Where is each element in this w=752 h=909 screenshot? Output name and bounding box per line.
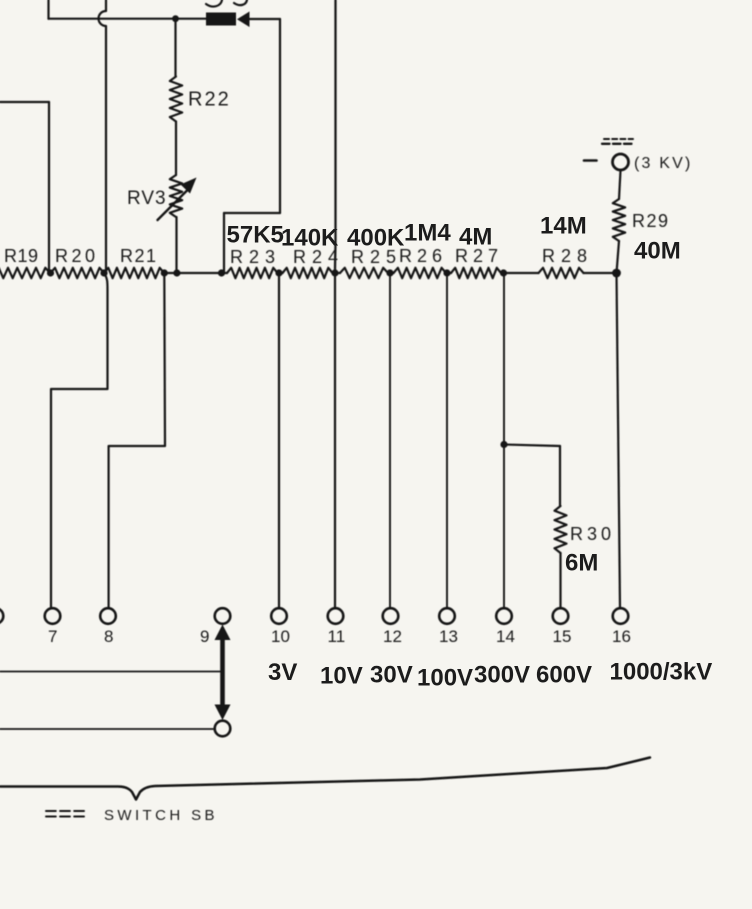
svg-text:14M: 14M	[540, 213, 587, 240]
svg-text:SWITCH SB: SWITCH SB	[104, 807, 218, 824]
resistor R23	[227, 268, 278, 278]
wire j9 to R27	[446, 272, 451, 274]
node chain j9	[443, 269, 450, 276]
wire top-left vertical stub	[47, 0, 49, 19]
minus sign	[584, 159, 597, 162]
wire left horizontal	[0, 101, 49, 103]
wire left vertical to chain	[48, 102, 50, 273]
terminal below switch arrow	[215, 721, 231, 737]
terminal 6 (cut) circle	[0, 608, 3, 624]
svg-text:7: 7	[48, 627, 57, 646]
wire R28 to j11	[584, 272, 617, 274]
node chain j4 RV3 tap	[173, 269, 180, 276]
terminal (3KV) circle	[613, 154, 629, 170]
wire down to terminal 14	[503, 273, 505, 608]
chassis dashes above 3KV terminal	[604, 138, 633, 140]
resistor R29	[613, 199, 625, 241]
wire step down to terminal 8	[109, 273, 165, 608]
terminal 10 circle	[271, 608, 287, 624]
node chain j5	[218, 269, 225, 276]
legend dashes	[46, 810, 84, 812]
node chain j1	[47, 269, 54, 276]
wire R30 branch horizontal	[504, 445, 560, 447]
svg-text:R29: R29	[632, 211, 670, 231]
switch wiper double arrow	[215, 625, 231, 641]
resistor R24	[283, 268, 333, 278]
svg-text:R22: R22	[188, 89, 231, 111]
wire j6 to R24	[278, 272, 283, 274]
svg-text:3V: 3V	[268, 659, 297, 686]
resistor R30	[555, 506, 567, 553]
diode body black rectangle	[206, 13, 236, 26]
wire bus to R22	[174, 19, 176, 77]
node chain j3	[161, 269, 168, 276]
wire j7 to R25	[333, 272, 341, 274]
svg-text:(3 KV): (3 KV)	[634, 155, 693, 172]
wire down to terminal 13	[446, 273, 448, 608]
resistor R26	[394, 268, 447, 278]
variable resistor RV3	[170, 175, 182, 217]
node junction of R22 branch on bus	[172, 15, 179, 22]
node chain j11 (R29 tap)	[612, 269, 621, 278]
wire 3KV terminal to R29	[619, 171, 621, 200]
wire down to terminal 11	[334, 0, 337, 273]
node chain j2	[100, 269, 107, 276]
svg-text:RV3: RV3	[127, 188, 167, 209]
wire common row B	[0, 728, 215, 730]
node chain j8	[386, 269, 393, 276]
svg-text:10V: 10V	[320, 663, 363, 690]
svg-text:400K: 400K	[347, 225, 405, 252]
wire step vertical down to chain	[223, 213, 225, 273]
wire R30 to terminal 15	[559, 553, 561, 608]
resistor R28	[539, 268, 584, 278]
wire step horizontal	[224, 212, 280, 214]
wire chain j3 to j4	[164, 272, 221, 274]
svg-text:R28: R28	[542, 246, 593, 266]
svg-text:300V: 300V	[474, 662, 530, 689]
svg-text:15: 15	[553, 627, 572, 646]
svg-text:8: 8	[104, 627, 113, 646]
terminal 11 circle	[328, 608, 344, 624]
terminal 14 circle	[496, 608, 512, 624]
svg-text:140K: 140K	[281, 225, 339, 252]
svg-text:R30: R30	[570, 524, 615, 544]
wire down to terminal 12	[389, 273, 391, 608]
svg-text:4M: 4M	[459, 224, 492, 251]
node R30 tap on terminal-14 wire	[500, 441, 507, 448]
svg-text:10: 10	[271, 627, 290, 646]
terminal 8 circle	[100, 608, 116, 624]
diode arrow triangle pointing left	[237, 12, 250, 28]
svg-text:30V: 30V	[370, 662, 413, 689]
svg-text:40M: 40M	[634, 238, 681, 265]
svg-text:16: 16	[612, 627, 631, 646]
svg-text:R26: R26	[399, 246, 447, 266]
wire RV3 to chain	[175, 217, 177, 273]
brace for switch SB	[0, 758, 650, 800]
wire R30 branch vertical	[559, 446, 561, 506]
svg-text:9: 9	[200, 627, 209, 646]
svg-text:100V: 100V	[417, 665, 473, 692]
wire step down to terminal 7	[51, 273, 108, 608]
wire right vertical down from bus corner	[279, 19, 281, 213]
cut-off glyph stroke 1 above diode	[206, 0, 222, 7]
svg-text:1000/3kV: 1000/3kV	[610, 659, 713, 686]
wire j8 to R26	[388, 272, 394, 274]
RV3 arrow	[158, 188, 191, 221]
wire from diode to right corner	[250, 18, 281, 20]
node chain j6	[275, 269, 282, 276]
terminal 13 circle	[439, 608, 455, 624]
cut-off glyph stroke 2 above diode	[234, 0, 247, 5]
terminal 12 circle	[383, 608, 399, 624]
wire R29 to chain	[617, 241, 620, 273]
resistor R27	[451, 268, 501, 278]
node chain j7	[331, 269, 338, 276]
svg-text:1M4: 1M4	[404, 220, 451, 247]
resistor R25	[340, 268, 388, 278]
terminal 15 circle	[553, 608, 569, 624]
svg-text:57K5: 57K5	[227, 222, 284, 249]
wire j10 to R28	[504, 272, 539, 274]
svg-text:R20: R20	[55, 246, 99, 266]
wire down to terminal 10	[278, 273, 280, 608]
node chain j10	[500, 269, 507, 276]
resistor R20	[51, 268, 105, 278]
wire down to terminal 16	[617, 273, 621, 608]
terminal 7 circle	[45, 608, 61, 624]
resistor R21	[104, 268, 164, 278]
svg-text:600V: 600V	[536, 662, 592, 689]
wire j5 to R23	[222, 272, 228, 274]
svg-text:14: 14	[496, 627, 515, 646]
svg-text:13: 13	[439, 627, 458, 646]
svg-text:11: 11	[328, 627, 346, 646]
resistor R19	[0, 268, 50, 278]
terminal 16 circle	[613, 608, 629, 624]
svg-text:R23: R23	[230, 247, 281, 267]
svg-text:12: 12	[383, 627, 402, 646]
terminal 9 circle	[215, 608, 231, 624]
resistor R22	[170, 77, 182, 122]
wire top horizontal bus	[49, 18, 207, 20]
wire common row A	[0, 671, 220, 673]
svg-text:R21: R21	[120, 246, 158, 266]
svg-text:6M: 6M	[565, 550, 598, 577]
svg-text:R19: R19	[4, 246, 39, 266]
wire vertical with hop over bus	[99, 0, 106, 273]
wire R22 to RV3	[175, 122, 177, 176]
